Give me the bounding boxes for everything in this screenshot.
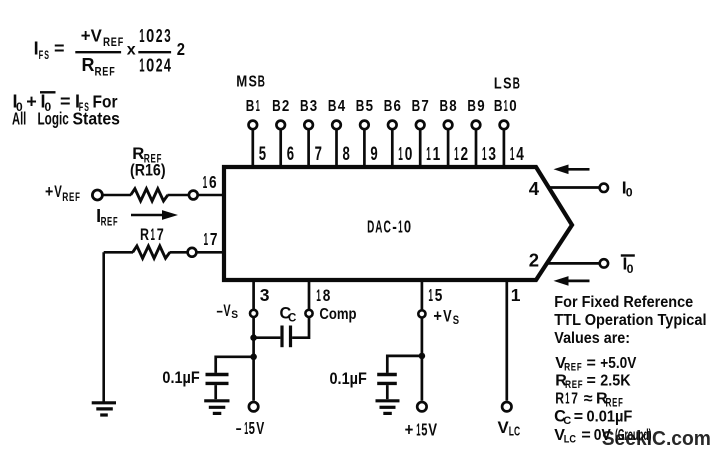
svg-text:1: 1 — [256, 97, 260, 115]
wire RREF to pin16 terminal — [168, 194, 189, 197]
svg-text:2: 2 — [461, 144, 469, 165]
wire junction to left bypass cap — [216, 357, 254, 373]
svg-text:R: R — [555, 390, 564, 408]
svg-text:1: 1 — [316, 286, 321, 305]
input pin B3 terminal — [304, 121, 313, 130]
svg-text:S: S — [453, 314, 459, 327]
input pin B8 terminal — [444, 121, 453, 130]
ground symbol under left 0.1uF — [204, 401, 229, 414]
svg-text:-: - — [392, 217, 397, 237]
ground symbol under right 0.1uF — [376, 401, 400, 414]
svg-text:F: F — [109, 65, 115, 79]
node pin16 terminal — [189, 191, 198, 200]
input pin B6 terminal — [388, 121, 397, 130]
svg-text:S: S — [249, 73, 258, 91]
arrow into pin4 — [566, 168, 590, 171]
svg-text:=: = — [587, 355, 596, 372]
svg-text:B: B — [328, 96, 337, 114]
svg-text:–: – — [236, 419, 242, 439]
svg-text:B: B — [494, 96, 503, 114]
svg-text:1: 1 — [416, 419, 420, 440]
svg-text:E: E — [107, 216, 112, 229]
svg-text:1: 1 — [482, 144, 487, 165]
wire B2 to chip — [279, 129, 282, 165]
ground symbol left — [92, 403, 116, 415]
node +VS terminal — [418, 310, 425, 317]
wire B1 to chip — [251, 129, 254, 165]
svg-text:V: V — [256, 419, 264, 439]
svg-text:A: A — [375, 218, 383, 238]
junction pin3 to CC — [250, 334, 257, 341]
wire -VS terminal down to -15V — [252, 317, 255, 401]
wire B10 to chip — [503, 129, 506, 165]
svg-text:F: F — [75, 191, 80, 204]
svg-text:1: 1 — [398, 144, 403, 165]
svg-text:1: 1 — [504, 97, 508, 115]
svg-text:4: 4 — [516, 144, 524, 165]
wire B5 to chip — [363, 129, 366, 165]
svg-text:1: 1 — [151, 224, 155, 243]
svg-text:F: F — [113, 216, 118, 229]
wire +VS terminal down to +15V — [421, 317, 424, 400]
svg-text:B: B — [300, 96, 309, 114]
svg-text:LC: LC — [509, 425, 521, 439]
svg-text:0: 0 — [627, 262, 634, 276]
arrow IREF current direction — [131, 214, 164, 217]
wire B9 to chip — [475, 129, 478, 165]
svg-text:1: 1 — [426, 144, 431, 165]
wire chip pin4 to I0 terminal — [548, 186, 599, 189]
node pin17 terminal — [188, 248, 197, 257]
node VLC terminal — [502, 402, 511, 411]
svg-text:0.1µF: 0.1µF — [162, 369, 199, 387]
svg-text:R: R — [62, 191, 68, 205]
svg-text:3: 3 — [164, 26, 171, 47]
svg-text:Values are:: Values are: — [554, 329, 630, 347]
svg-text:1: 1 — [139, 25, 144, 46]
svg-text:+: + — [405, 419, 414, 440]
svg-text:5: 5 — [435, 287, 443, 306]
wire B4 to chip — [335, 129, 338, 165]
svg-text:7: 7 — [421, 98, 428, 115]
svg-text:V: V — [223, 302, 231, 321]
svg-text:States: States — [73, 109, 120, 129]
svg-text:B: B — [440, 96, 449, 114]
svg-text:S: S — [44, 49, 49, 62]
svg-text:E: E — [571, 361, 577, 374]
svg-text:=: = — [587, 373, 596, 390]
svg-text:5: 5 — [259, 142, 266, 164]
wire B3 to chip — [307, 129, 310, 165]
svg-text:S: S — [231, 308, 238, 321]
node Comp terminal — [305, 310, 312, 317]
svg-text:+: + — [45, 183, 53, 201]
label I0bar overline — [621, 254, 635, 256]
svg-text:R: R — [101, 216, 107, 229]
svg-text:B: B — [258, 72, 266, 90]
svg-text:7: 7 — [157, 226, 164, 244]
svg-text:4: 4 — [338, 98, 345, 115]
wire +VREF to RREF — [103, 194, 131, 197]
node I0 terminal — [600, 184, 608, 192]
svg-text:F: F — [578, 379, 583, 392]
capacitor C 0.1uF left — [206, 373, 229, 376]
node I0bar terminal — [600, 259, 608, 267]
capacitor C 0.1uF right — [377, 373, 397, 376]
wire chip pin2 to I0bar terminal — [547, 262, 599, 265]
node -15V terminal — [249, 402, 258, 411]
svg-text:B: B — [356, 96, 365, 114]
wire left cap to ground — [214, 385, 217, 399]
wire chip pin15 down — [421, 282, 424, 311]
op-amp U1 DAC-10 body outline — [224, 167, 572, 280]
wire junction to CC — [254, 336, 281, 339]
svg-text:V: V — [443, 307, 451, 326]
svg-text:All: All — [12, 109, 26, 129]
svg-text:2: 2 — [529, 250, 539, 271]
svg-text:B: B — [384, 96, 393, 114]
svg-text:D: D — [367, 218, 374, 238]
svg-text:5: 5 — [421, 420, 427, 440]
input pin B7 terminal — [416, 121, 425, 130]
resistor RREF (R16) — [131, 189, 168, 201]
svg-text:+: + — [433, 308, 441, 326]
svg-text:6: 6 — [394, 98, 401, 115]
formula IFS = (+VREF/RREF) x (1023/1024) 2 — [34, 25, 185, 79]
svg-text:1: 1 — [203, 173, 208, 192]
capacitor CC — [280, 326, 283, 348]
svg-text:E: E — [69, 191, 74, 204]
svg-text:For Fixed Reference: For Fixed Reference — [554, 293, 693, 311]
formula I0 + I0bar = IFS For All Logic States — [12, 91, 120, 129]
svg-text:B: B — [467, 96, 476, 114]
svg-text:8: 8 — [449, 98, 456, 115]
svg-text:E: E — [102, 65, 108, 78]
svg-text:1: 1 — [433, 144, 441, 165]
svg-text:S: S — [503, 75, 512, 93]
svg-text:0.1µF: 0.1µF — [330, 370, 367, 388]
svg-text:1: 1 — [565, 389, 569, 407]
svg-text:7: 7 — [571, 390, 578, 408]
svg-text:C: C — [563, 415, 571, 427]
svg-text:C: C — [384, 218, 392, 238]
svg-text:7: 7 — [315, 142, 322, 164]
svg-text:9: 9 — [477, 98, 484, 115]
svg-text:F: F — [118, 36, 124, 50]
svg-text:=: = — [581, 427, 590, 444]
svg-text:E: E — [111, 36, 117, 49]
svg-text:2: 2 — [177, 40, 185, 60]
input pin B10 terminal — [500, 121, 509, 130]
svg-text:x: x — [127, 41, 136, 58]
svg-text:+V: +V — [81, 25, 102, 46]
svg-text:F: F — [577, 361, 582, 374]
svg-text:1: 1 — [204, 230, 209, 249]
junction pin15 to bypass cap — [419, 353, 426, 360]
svg-text:0: 0 — [146, 25, 154, 46]
svg-text:1: 1 — [511, 285, 521, 305]
svg-text:9: 9 — [370, 142, 377, 164]
svg-text:1: 1 — [139, 55, 144, 76]
node -VS terminal — [250, 310, 257, 317]
svg-text:+: + — [26, 92, 37, 112]
input pin B2 terminal — [276, 121, 285, 130]
wire B7 to chip — [419, 129, 422, 165]
svg-text:0: 0 — [626, 186, 633, 200]
svg-text:2: 2 — [156, 26, 163, 46]
svg-text:V: V — [54, 183, 62, 202]
svg-text:V: V — [428, 421, 437, 440]
wire junction to right bypass cap — [387, 356, 422, 373]
svg-text:I: I — [34, 38, 39, 58]
svg-text:Logic: Logic — [38, 109, 69, 129]
input pin B5 terminal — [360, 121, 369, 130]
svg-text:0: 0 — [405, 144, 413, 165]
svg-text:(R16): (R16) — [130, 162, 166, 180]
svg-text:2.5K: 2.5K — [600, 372, 630, 390]
svg-text:F: F — [39, 49, 44, 62]
resistor R17 — [133, 246, 170, 258]
wire right cap to ground — [386, 385, 389, 399]
svg-text:B: B — [412, 96, 421, 114]
wire CC to pin18 — [292, 317, 309, 338]
svg-text:3: 3 — [310, 98, 317, 115]
svg-text:SeekIC.com: SeekIC.com — [602, 428, 711, 450]
svg-text:Comp: Comp — [319, 306, 356, 323]
svg-text:+5.0V: +5.0V — [600, 355, 636, 372]
svg-text:5: 5 — [366, 98, 373, 115]
svg-text:=: = — [574, 409, 583, 426]
wire B8 to chip — [447, 129, 450, 165]
svg-text:4: 4 — [164, 55, 171, 76]
svg-text:1: 1 — [510, 144, 515, 165]
svg-text:LC: LC — [564, 434, 577, 446]
svg-text:0: 0 — [509, 98, 516, 115]
svg-text:2: 2 — [156, 56, 163, 76]
svg-text:6: 6 — [209, 174, 217, 193]
arrow into pin2 — [566, 280, 590, 283]
svg-text:1: 1 — [398, 216, 403, 237]
wire B6 to chip — [391, 129, 394, 165]
svg-text:6: 6 — [287, 142, 294, 164]
svg-text:L: L — [494, 75, 502, 93]
input pin B9 terminal — [472, 121, 481, 130]
svg-text:–: – — [217, 302, 223, 321]
svg-text:R: R — [82, 55, 95, 75]
svg-text:R: R — [132, 144, 144, 163]
svg-text:0: 0 — [404, 218, 411, 238]
svg-text:5: 5 — [249, 420, 255, 439]
svg-text:B: B — [272, 96, 281, 114]
wire chip pin3 down — [252, 282, 255, 310]
wire terminal to chip pin 17 — [197, 251, 223, 254]
svg-text:8: 8 — [323, 287, 331, 306]
input pin B4 terminal — [332, 121, 341, 130]
svg-text:1: 1 — [244, 418, 248, 438]
wire R17 branch down to ground — [102, 252, 105, 401]
svg-text:TTL Operation Typical: TTL Operation Typical — [554, 311, 706, 329]
svg-text:8: 8 — [343, 142, 350, 164]
wire chip pin1 down — [505, 282, 508, 401]
svg-text:V: V — [498, 418, 510, 437]
svg-text:≈: ≈ — [584, 390, 593, 407]
svg-text:R: R — [103, 36, 110, 49]
svg-text:C: C — [288, 312, 296, 324]
svg-text:3: 3 — [488, 144, 496, 165]
wire chip pin18 down — [308, 282, 311, 310]
node +15V terminal — [417, 402, 426, 411]
svg-text:M: M — [236, 74, 247, 91]
svg-text:4: 4 — [529, 178, 540, 199]
svg-text:1: 1 — [454, 144, 459, 165]
svg-text:0: 0 — [146, 55, 154, 76]
svg-text:0.01µF: 0.01µF — [587, 408, 633, 426]
wire left corner to R17 — [104, 251, 133, 254]
svg-text:2: 2 — [282, 98, 289, 115]
wire terminal to chip pin 16 — [198, 194, 223, 197]
input pin B1 terminal — [249, 121, 258, 130]
svg-text:R: R — [95, 66, 102, 79]
svg-text:R: R — [140, 226, 149, 244]
node +VREF terminal — [92, 190, 102, 200]
wire R17 to pin17 terminal — [170, 251, 188, 254]
svg-text:1: 1 — [428, 286, 433, 305]
svg-text:7: 7 — [210, 231, 218, 250]
junction pin3 to bypass cap — [250, 354, 257, 361]
svg-text:B: B — [246, 96, 255, 114]
svg-text:=: = — [54, 38, 65, 58]
svg-text:B: B — [513, 74, 521, 92]
svg-text:3: 3 — [260, 285, 270, 305]
